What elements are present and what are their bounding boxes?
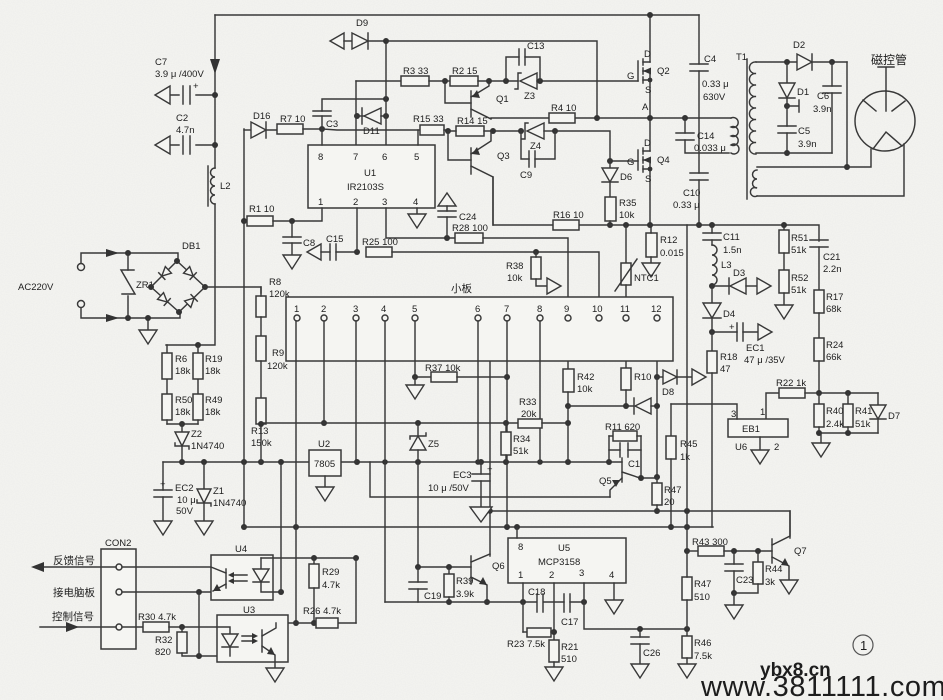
resistor R18 47 xyxy=(707,332,737,527)
varistor ZR1 xyxy=(121,253,154,318)
svg-text:C11: C11 xyxy=(723,232,740,243)
IC EB1 U6 xyxy=(728,407,788,453)
svg-text:R26 4.7k: R26 4.7k xyxy=(303,606,341,617)
svg-text:D16: D16 xyxy=(253,111,270,122)
transistor Q1 xyxy=(442,78,509,119)
wire control line xyxy=(40,626,116,628)
op-amp U1 IR2103S xyxy=(308,145,435,208)
wire Q5 emitter line y497 xyxy=(370,462,610,497)
optocoupler U4 xyxy=(211,544,273,600)
svg-text:C13: C13 xyxy=(527,41,544,52)
svg-text:A: A xyxy=(642,102,649,113)
wire ground bus y527 xyxy=(244,526,713,528)
svg-text:51k: 51k xyxy=(855,419,871,430)
zener Z2 1N4740 xyxy=(175,424,224,462)
terminal AC L xyxy=(78,264,85,271)
board connector 小板 xyxy=(286,282,673,361)
node pin8 xyxy=(537,315,543,321)
capacitor C21 xyxy=(810,240,842,290)
svg-text:51k: 51k xyxy=(791,245,807,256)
wire x356 column to R26 line xyxy=(355,558,357,623)
node pin10 xyxy=(596,315,602,321)
wire U5 pin1 column xyxy=(522,583,524,632)
svg-text:L2: L2 xyxy=(220,181,231,192)
optocoupler U3 xyxy=(217,605,288,662)
wire R50/R49 bottom junction xyxy=(167,423,198,425)
capacitor C3 xyxy=(313,96,389,130)
svg-text:C2: C2 xyxy=(176,113,188,124)
capacitor C10 xyxy=(673,173,708,228)
wire left HV vertical with flow arrow xyxy=(214,15,216,168)
svg-text:0.33 μ: 0.33 μ xyxy=(702,79,729,90)
wire U5 pin3 column + y629 line xyxy=(584,583,687,629)
wire U5 pin8 stub xyxy=(516,527,518,538)
svg-text:R30 4.7k: R30 4.7k xyxy=(138,612,176,623)
wire D9 node to node A xyxy=(386,41,597,118)
svg-text:2: 2 xyxy=(353,197,358,208)
resistor R6 xyxy=(162,345,191,394)
svg-text:510: 510 xyxy=(694,592,710,603)
node pin9 xyxy=(565,315,571,321)
svg-text:R50: R50 xyxy=(175,395,192,406)
resistor R40 2.4k xyxy=(814,393,844,433)
node pin12 xyxy=(654,315,660,321)
wire U1 pin4 stub + ground xyxy=(408,208,426,228)
svg-text:小板: 小板 xyxy=(451,282,472,295)
diode U3 LED xyxy=(217,627,238,656)
transformer T1 core xyxy=(736,52,747,199)
svg-text:1: 1 xyxy=(760,407,765,418)
ground EC2 xyxy=(154,521,172,535)
capacitor EC2 xyxy=(154,462,196,521)
svg-text:R12: R12 xyxy=(660,235,677,246)
svg-text:20: 20 xyxy=(664,497,675,508)
resistor R11 620 xyxy=(605,422,641,441)
wire U1 pin2 column xyxy=(356,208,358,252)
wire pin12 column xyxy=(656,321,658,477)
wire U1 pin5 stub xyxy=(417,130,419,145)
node pin7 xyxy=(504,315,510,321)
svg-text:D: D xyxy=(644,49,651,60)
svg-text:1.5n: 1.5n xyxy=(723,245,742,256)
svg-text:7.5k: 7.5k xyxy=(694,651,712,662)
svg-text:6: 6 xyxy=(382,152,387,163)
svg-text:R35: R35 xyxy=(619,198,636,209)
svg-text:D8: D8 xyxy=(662,387,674,398)
svg-text:3.9 μ /400V: 3.9 μ /400V xyxy=(155,69,204,80)
capacitor C19 xyxy=(409,564,441,602)
resistor R32 820 xyxy=(155,627,217,659)
node pin3 xyxy=(353,315,359,321)
capacitor C24 xyxy=(438,193,476,238)
svg-text:4: 4 xyxy=(381,304,386,315)
wire EB1 pin2 ground xyxy=(751,437,769,464)
svg-text:820: 820 xyxy=(155,647,171,658)
wire U1 pin8 stub xyxy=(321,129,323,145)
svg-text:Q2: Q2 xyxy=(657,66,670,77)
capacitor C8 xyxy=(283,221,315,269)
connector CON2 xyxy=(101,538,136,649)
wire pin7 column xyxy=(506,321,508,527)
svg-text:C4: C4 xyxy=(704,54,716,65)
resistor R3 33 xyxy=(356,66,445,86)
inductor L2 xyxy=(208,166,231,206)
resistor R47 510 xyxy=(682,551,711,629)
wire pin8 column xyxy=(539,321,541,462)
wire AC L to bridge top xyxy=(81,253,178,263)
svg-text:R47: R47 xyxy=(694,579,711,590)
wire pin3 column xyxy=(355,321,357,462)
wire pin4 column xyxy=(384,321,386,602)
svg-text:47 μ /35V: 47 μ /35V xyxy=(744,355,786,366)
node circled 1 page marker xyxy=(853,635,873,655)
transistor Q5 xyxy=(599,458,657,497)
wire Z4 node to Q4 gate and D6 xyxy=(555,131,638,161)
svg-text:R29: R29 xyxy=(322,567,339,578)
resistor R45 1k xyxy=(666,404,697,530)
svg-text:51k: 51k xyxy=(513,446,529,457)
svg-text:C17: C17 xyxy=(561,617,578,628)
regulator U2 7805 xyxy=(309,439,341,476)
transistor U3 phototransistor xyxy=(262,623,276,668)
svg-text:CON2: CON2 xyxy=(105,538,131,549)
wire D2 to filament line xyxy=(846,62,848,167)
ground U2 xyxy=(316,476,334,501)
wire +V supply rail xyxy=(163,461,622,463)
svg-text:Q5: Q5 xyxy=(599,476,612,487)
svg-text:DB1: DB1 xyxy=(182,241,200,252)
capacitor C17 xyxy=(561,594,578,628)
svg-text:www.3811111.com: www.3811111.com xyxy=(700,671,943,700)
diode D16 xyxy=(244,111,282,138)
svg-text:3: 3 xyxy=(353,304,358,315)
zener Z4 xyxy=(522,123,558,152)
capacitor C1 xyxy=(609,436,641,478)
svg-text:68k: 68k xyxy=(826,304,842,315)
svg-text:10 μ /50V: 10 μ /50V xyxy=(428,483,470,494)
svg-text:11: 11 xyxy=(620,304,630,315)
thermistor NTC1 xyxy=(615,225,659,315)
wire DB1 output to R8 xyxy=(205,287,261,293)
svg-text:D4: D4 xyxy=(723,309,735,320)
resistor R35 10k xyxy=(605,197,636,228)
transistor Q7 xyxy=(772,511,807,594)
svg-text:C14: C14 xyxy=(697,131,714,142)
svg-text:1: 1 xyxy=(294,304,299,315)
diode D3 xyxy=(712,268,771,294)
svg-text:L3: L3 xyxy=(721,260,732,271)
svg-text:+: + xyxy=(193,81,199,92)
svg-text:R24: R24 xyxy=(826,340,843,351)
svg-text:R51: R51 xyxy=(791,233,808,244)
svg-text:R21: R21 xyxy=(561,642,578,653)
svg-text:EC1: EC1 xyxy=(746,343,764,354)
svg-text:U4: U4 xyxy=(235,544,247,555)
diode D9 xyxy=(330,18,389,49)
resistor R13 xyxy=(251,398,272,462)
svg-text:S: S xyxy=(645,174,651,185)
wire EB1 pin3 to R45 xyxy=(671,404,737,419)
capacitor EC3 xyxy=(428,462,493,522)
svg-text:18k: 18k xyxy=(175,366,191,377)
capacitor C14 xyxy=(676,118,729,154)
inductor L3 xyxy=(709,245,732,289)
diode D4 xyxy=(703,286,735,335)
svg-text:U1: U1 xyxy=(364,168,376,179)
svg-text:EB1: EB1 xyxy=(742,424,760,435)
resistor R29 4.7k xyxy=(309,558,340,626)
wire feedback line xyxy=(44,566,211,568)
svg-text:3.9n: 3.9n xyxy=(813,104,832,115)
resistor R8 xyxy=(256,277,290,336)
svg-text:7: 7 xyxy=(353,152,358,163)
svg-text:5: 5 xyxy=(414,152,419,163)
svg-text:18k: 18k xyxy=(205,366,221,377)
svg-text:T1: T1 xyxy=(736,52,747,63)
resistor R34 51k xyxy=(501,420,530,462)
ground C23/R44 xyxy=(725,593,743,619)
svg-text:10 μ: 10 μ xyxy=(177,495,196,506)
wire computer board line xyxy=(122,591,211,593)
resistor R39 3.9k xyxy=(444,564,474,605)
svg-text:2.2n: 2.2n xyxy=(823,264,842,275)
resistor R37 10k xyxy=(425,363,507,382)
svg-text:+: + xyxy=(729,322,735,333)
svg-text:AC220V: AC220V xyxy=(18,282,54,293)
svg-text:R4 10: R4 10 xyxy=(551,103,576,114)
resistor R19 xyxy=(193,345,222,394)
IC U5 MCP3158 xyxy=(508,538,626,583)
capacitor C18 xyxy=(528,587,545,612)
svg-text:EC2: EC2 xyxy=(175,483,193,494)
svg-text:4.7k: 4.7k xyxy=(322,580,340,591)
svg-text:R17: R17 xyxy=(826,292,843,303)
wire filament bottom xyxy=(757,144,904,196)
svg-text:R22 1k: R22 1k xyxy=(776,378,806,389)
resistor R49 xyxy=(193,394,222,424)
wire U4 LED cathode column xyxy=(280,462,282,592)
wire U1 pin7 column xyxy=(355,81,357,145)
svg-text:R19: R19 xyxy=(205,354,222,365)
svg-text:R2 15: R2 15 xyxy=(452,66,477,77)
svg-text:D2: D2 xyxy=(793,40,805,51)
ground DB1 xyxy=(139,315,157,344)
svg-text:+: + xyxy=(160,479,166,490)
resistor R38 10k xyxy=(506,252,561,294)
ground U3 emitter xyxy=(266,668,284,682)
svg-text:D9: D9 xyxy=(356,18,368,29)
svg-text:3k: 3k xyxy=(765,577,775,588)
wire y602 line xyxy=(385,601,584,603)
svg-text:S: S xyxy=(645,85,651,96)
svg-text:50V: 50V xyxy=(176,506,194,517)
svg-text:R32: R32 xyxy=(155,635,172,646)
svg-text:1N4740: 1N4740 xyxy=(213,498,246,509)
resistor R47 20 xyxy=(652,477,681,514)
diode D11 xyxy=(354,108,389,137)
svg-text:3: 3 xyxy=(731,409,736,420)
capacitor C7 xyxy=(155,57,218,104)
svg-text:R52: R52 xyxy=(791,273,808,284)
svg-text:18k: 18k xyxy=(175,407,191,418)
transistor Q2 (MOSFET) xyxy=(627,12,670,118)
svg-text:10: 10 xyxy=(592,304,603,315)
wire left rail from D16 down to gnd bus xyxy=(243,129,245,527)
resistor R9 xyxy=(256,336,288,398)
zener Z5 xyxy=(410,420,439,462)
svg-text:C24: C24 xyxy=(459,212,476,223)
diode D8 xyxy=(654,369,706,398)
diode on y406 line xyxy=(634,398,657,414)
svg-text:4: 4 xyxy=(609,570,614,581)
svg-text:R3 33: R3 33 xyxy=(403,66,428,77)
diode D6 xyxy=(602,161,632,197)
svg-text:C5: C5 xyxy=(798,126,810,137)
svg-text:R10: R10 xyxy=(634,372,651,383)
svg-text:3: 3 xyxy=(382,197,387,208)
svg-text:0.33 μ: 0.33 μ xyxy=(673,200,700,211)
svg-text:C9: C9 xyxy=(520,170,532,181)
inductor T1 secondary winding xyxy=(749,62,756,154)
svg-text:0.015: 0.015 xyxy=(660,248,684,259)
svg-text:R41: R41 xyxy=(855,406,872,417)
wire y406 line xyxy=(568,405,633,407)
svg-text:Z5: Z5 xyxy=(428,439,439,450)
resistor R28 100 xyxy=(452,223,568,315)
svg-text:66k: 66k xyxy=(826,352,842,363)
svg-text:C3: C3 xyxy=(326,119,338,130)
capacitor C13 loop xyxy=(506,41,544,81)
resistor R30 4.7k xyxy=(122,612,217,632)
zener Z3 xyxy=(515,73,638,102)
svg-text:U3: U3 xyxy=(243,605,255,616)
svg-text:IR2103S: IR2103S xyxy=(347,182,384,193)
svg-text:NTC1: NTC1 xyxy=(634,273,659,284)
resistor R22 1k xyxy=(766,378,819,421)
svg-text:12: 12 xyxy=(651,304,662,315)
capacitor C15 xyxy=(307,234,360,260)
wire y423 line xyxy=(261,422,518,424)
inductor T1 filament winding xyxy=(750,170,757,196)
wire U1 pin3 column + R28 line xyxy=(386,208,455,238)
capacitor C11 xyxy=(703,225,742,256)
resistor R23 7.5k xyxy=(507,628,554,650)
svg-text:3.9n: 3.9n xyxy=(798,139,817,150)
capacitor C2 xyxy=(155,113,218,154)
magnetron xyxy=(855,52,915,151)
svg-text:C21: C21 xyxy=(823,252,840,263)
svg-text:18k: 18k xyxy=(205,407,221,418)
svg-text:D3: D3 xyxy=(733,268,745,279)
svg-text:6: 6 xyxy=(475,304,480,315)
svg-text:Q7: Q7 xyxy=(794,546,807,557)
svg-text:EC3: EC3 xyxy=(453,470,471,481)
svg-text:4: 4 xyxy=(413,197,418,208)
wire R40/R41/D7 top xyxy=(819,392,878,394)
svg-text:1: 1 xyxy=(318,197,323,208)
svg-text:2: 2 xyxy=(774,442,779,453)
svg-text:C8: C8 xyxy=(303,238,315,249)
wire Z5 column down to Q6 base line xyxy=(418,462,471,567)
wire U4 LED anode line y558 xyxy=(261,557,356,559)
svg-text:磁控管: 磁控管 xyxy=(871,52,907,67)
svg-text:51k: 51k xyxy=(791,285,807,296)
svg-text:R9: R9 xyxy=(272,348,284,359)
resistor R24 66k xyxy=(814,338,843,396)
wire U5 pin2 column xyxy=(553,583,555,640)
resistor R26 4.7k xyxy=(303,606,341,628)
ground Z1 xyxy=(195,521,213,535)
svg-text:R37 10k: R37 10k xyxy=(425,363,461,374)
svg-text:7805: 7805 xyxy=(314,459,335,470)
svg-text:10k: 10k xyxy=(619,210,635,221)
svg-text:Q4: Q4 xyxy=(657,155,670,166)
resistor R52 51k xyxy=(775,270,808,319)
svg-text:R14 15: R14 15 xyxy=(457,116,488,127)
svg-text:Z3: Z3 xyxy=(524,91,535,102)
svg-text:8: 8 xyxy=(318,152,323,163)
node pin1 xyxy=(294,315,300,321)
svg-text:D11: D11 xyxy=(363,126,380,137)
svg-text:630V: 630V xyxy=(703,92,726,103)
svg-text:R16 10: R16 10 xyxy=(553,210,584,221)
resistor R21 510 xyxy=(545,640,578,681)
capacitor C4 xyxy=(690,15,729,173)
resistor R25 100 xyxy=(362,237,599,315)
svg-text:C1: C1 xyxy=(628,459,640,470)
resistor R16 10 xyxy=(553,210,584,230)
svg-text:控制信号: 控制信号 xyxy=(52,610,94,623)
svg-text:D1: D1 xyxy=(797,87,809,98)
wire U5 pin4 ground xyxy=(605,583,623,614)
bridge rectifier DB1 xyxy=(148,241,208,315)
light arrows U4 xyxy=(228,572,247,584)
wire CON2 pin2 drop xyxy=(198,592,200,656)
svg-text:1k: 1k xyxy=(680,452,690,463)
wire R26 line xyxy=(276,622,356,624)
svg-text:1N4740: 1N4740 xyxy=(191,441,224,452)
svg-text:接电脑板: 接电脑板 xyxy=(53,586,95,599)
node pin6 xyxy=(475,315,481,321)
svg-text:R18: R18 xyxy=(720,352,737,363)
node pin4 xyxy=(382,315,388,321)
wire pin6 column xyxy=(477,321,479,462)
svg-text:R45: R45 xyxy=(680,439,697,450)
svg-text:Z2: Z2 xyxy=(191,429,202,440)
svg-text:C23: C23 xyxy=(736,575,753,586)
svg-text:47: 47 xyxy=(720,364,731,375)
node R6/R19 top junction xyxy=(195,342,201,348)
svg-text:R43 300: R43 300 xyxy=(692,537,728,548)
wire secondary bottom xyxy=(756,152,832,154)
transistor U4 phototransistor xyxy=(211,567,226,591)
svg-text:R38: R38 xyxy=(506,261,523,272)
wire pin2 column xyxy=(323,321,325,423)
svg-text:8: 8 xyxy=(518,542,523,553)
svg-text:510: 510 xyxy=(561,654,577,665)
svg-text:D: D xyxy=(644,138,651,149)
svg-text:Z1: Z1 xyxy=(213,486,224,497)
svg-text:C19: C19 xyxy=(424,591,441,602)
transistor Q6 xyxy=(471,554,505,605)
resistor R2 15 xyxy=(445,66,518,86)
svg-text:U6: U6 xyxy=(735,442,747,453)
diode D7 xyxy=(870,393,900,433)
svg-text:D6: D6 xyxy=(620,172,632,183)
diode U4 LED xyxy=(253,558,284,595)
capacitor EC1 xyxy=(712,322,786,366)
zener Z1 1N4740 xyxy=(197,462,246,521)
